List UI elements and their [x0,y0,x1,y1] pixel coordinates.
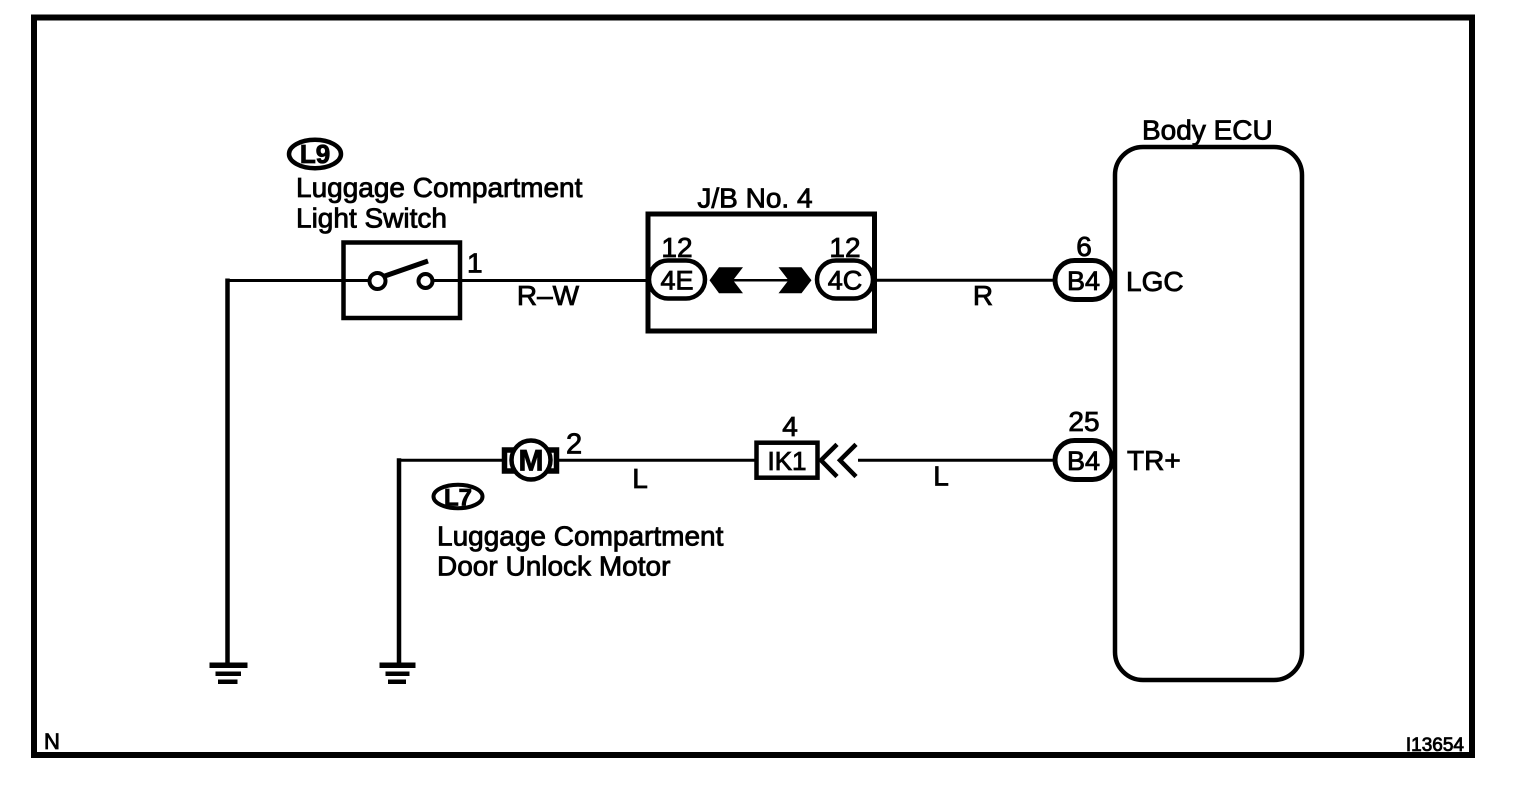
svg-text:4: 4 [782,411,798,442]
svg-text:R–W: R–W [517,280,580,311]
svg-text:4C: 4C [828,266,863,296]
svg-text:25: 25 [1068,406,1099,437]
wire: ground G1 to switch [226,279,344,664]
svg-text:4E: 4E [660,266,693,296]
svg-text:Door Unlock Motor: Door Unlock Motor [437,551,670,582]
svg-text:N: N [44,729,60,754]
svg-text:L: L [933,461,949,492]
svg-text:I13654: I13654 [1406,735,1465,756]
svg-text:LGC: LGC [1126,266,1184,297]
wire: ground G2 to motor [397,458,402,663]
connector B4 pin 25 [1055,406,1112,480]
svg-text:L: L [632,463,648,494]
connector 4E pin 12 [649,232,705,299]
svg-text:J/B No. 4: J/B No. 4 [697,183,812,214]
svg-text:TR+: TR+ [1127,445,1181,476]
wire: 4C to B4 (R) [875,279,1053,282]
svg-text:L9: L9 [300,139,330,169]
arrow right (mating arrow at 4C) [779,267,812,293]
ground G1 [210,663,248,685]
wire: switch to connector 4E [461,279,649,282]
svg-text:L7: L7 [444,485,472,512]
svg-text:R: R [973,280,993,311]
wire from right contact [432,279,461,282]
svg-text:1: 1 [467,248,483,279]
wire between arrows [731,279,790,282]
svg-text:6: 6 [1076,231,1092,262]
svg-text:Light Switch: Light Switch [296,203,447,234]
svg-text:Body ECU: Body ECU [1142,115,1273,146]
connector mating chevrons at IK1 [821,444,856,476]
svg-text:Luggage Compartment: Luggage Compartment [296,172,583,203]
wire: motor to IK1 (L) [559,459,756,462]
connector 4C pin 12 [817,232,873,299]
component label L9 oval [289,139,341,169]
motor M (luggage compartment door unlock motor) [505,441,557,480]
label: Luggage Compartment Light Switch [296,172,583,234]
wire inside switch to left contact [343,279,370,282]
switch lever [382,261,428,277]
connector IK1 pin 4 [757,411,818,478]
svg-text:B4: B4 [1067,446,1100,476]
switch contact right [419,274,433,288]
svg-text:2: 2 [566,429,582,461]
connector B4 pin 6 [1055,231,1112,300]
junction block J/B No. 4 [648,183,875,332]
switch contact left [370,273,386,289]
switch L9: luggage compartment light switch [343,243,461,319]
component label L7 oval [434,485,483,512]
svg-text:IK1: IK1 [767,446,806,476]
svg-text:Luggage Compartment: Luggage Compartment [437,521,724,552]
wire: IK1 to B4 (L) [858,459,1053,462]
arrow left (mating arrow at 4E) [710,267,744,293]
ground G2 [380,663,416,685]
label: Luggage Compartment Door Unlock Motor [437,521,724,582]
svg-text:B4: B4 [1067,266,1100,296]
ECU: Body ECU [1115,115,1302,681]
svg-text:M: M [519,445,544,478]
